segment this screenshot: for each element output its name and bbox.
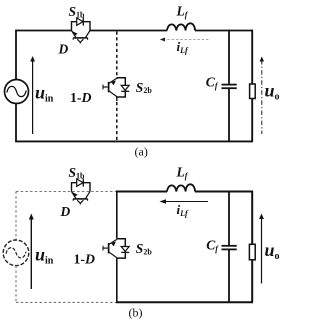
wire: (a) right wire lower — [251, 99, 253, 142]
svg-text:Cf: Cf — [206, 75, 219, 91]
arrow: u_in direction (b) — [30, 217, 32, 289]
wire: (a) right wire upper — [251, 30, 253, 85]
emitter arrowhead S1b (a) — [73, 31, 78, 36]
load resistor (b) — [249, 244, 255, 259]
IGBT gate bar S2b (a) — [108, 82, 110, 93]
wire: (a) top wire left segment — [16, 30, 72, 32]
wire: (b) right wire upper — [251, 191, 253, 245]
wire: (b) dashed top wire — [16, 191, 116, 193]
gate lead S2b (b) — [103, 247, 108, 249]
wire: (a) top wire right segment (inductor to right corner) — [195, 30, 253, 32]
wire: (b) bottom wire solid — [116, 301, 253, 303]
wire: dashed branch above S2b (a) — [116, 32, 118, 78]
gate arrow below bar S1b (a) — [77, 39, 83, 42]
svg-text:D: D — [58, 42, 69, 57]
IGBT body S2b (a) — [116, 78, 118, 79]
AC source (a) — [5, 80, 29, 104]
capacitor Cf plates (a) — [222, 84, 237, 86]
inductor Lf (b) — [167, 184, 195, 191]
switch S2b (a): diode loop — [117, 78, 126, 97]
capacitor Cf branch (b): upper lead — [228, 192, 230, 246]
svg-text:Lf: Lf — [176, 164, 189, 180]
svg-text:S1b: S1b — [69, 165, 86, 180]
wire: (a) left wire lower — [15, 104, 17, 142]
wire: (a) bottom wire — [15, 140, 253, 142]
wire: (b) dashed bottom wire — [16, 301, 116, 303]
svg-text:Cf: Cf — [206, 238, 219, 254]
svg-text:uin: uin — [35, 245, 54, 267]
wire: (b) S2b branch upper solid — [116, 192, 118, 239]
capacitor Cf lower lead (a) — [228, 89, 230, 142]
IGBT gate bar S2b (b) — [108, 243, 110, 254]
svg-text:iLf: iLf — [177, 39, 190, 55]
svg-text:S2b: S2b — [136, 80, 153, 95]
svg-text:(a): (a) — [135, 145, 148, 159]
gate lead S2b (a) — [103, 86, 108, 88]
svg-text:uo: uo — [265, 81, 280, 103]
capacitor Cf plates (b) — [222, 245, 237, 247]
IGBT body S1b (b) — [72, 192, 77, 199]
AC source (b) dashed — [3, 240, 29, 266]
load resistor (a) — [250, 84, 256, 99]
IGBT body S1b (a): trapezoid below wire — [72, 31, 77, 38]
wire: (b) solid top wire left of inductor — [116, 191, 167, 193]
collector arrowhead S2b (b) — [111, 242, 116, 247]
switch S1b (b): diode loop above wire — [72, 183, 91, 192]
emitter arrowhead S1b (b) — [73, 192, 78, 197]
svg-text:1-D: 1-D — [70, 90, 92, 105]
wire: (b) dashed left wire upper — [15, 192, 17, 241]
wire: dashed branch below S2b (a) — [116, 102, 118, 141]
diode D of S1b (a) — [77, 18, 83, 25]
svg-text:Lf: Lf — [176, 3, 189, 19]
wire: (b) S2b branch lower solid — [116, 258, 118, 302]
svg-text:S1b: S1b — [69, 4, 86, 19]
gate arrow below bar S1b (b) — [77, 200, 83, 203]
svg-text:uin: uin — [35, 83, 54, 105]
arrow: i_Lf (a) gray dashed — [163, 39, 210, 41]
wire: (b) right wire lower — [251, 260, 253, 303]
svg-text:S2b: S2b — [136, 241, 153, 256]
svg-text:uo: uo — [265, 240, 280, 262]
capacitor Cf branch (a): upper lead — [228, 30, 230, 85]
wire: (a) left wire upper — [15, 30, 17, 80]
wire: (b) top wire right of inductor — [195, 191, 253, 193]
anti-parallel diode of S2b (a) — [121, 85, 129, 90]
collector arrowhead S2b (a) — [111, 81, 116, 86]
capacitor Cf lower lead (b) — [228, 250, 230, 303]
anti-parallel diode of S2b (b) — [121, 247, 129, 252]
diode D of S1b (b) — [77, 179, 83, 186]
arrow: u_o (a) dash-dot — [261, 60, 263, 134]
wire: (a) top wire middle segment (S1b to inductor) — [90, 30, 167, 32]
svg-text:iLf: iLf — [177, 202, 190, 218]
arrow: u_in direction (a) — [32, 60, 34, 135]
IGBT gate bar S1b (b) — [73, 198, 87, 200]
switch S2b (b): diode loop — [117, 239, 126, 258]
svg-text:D: D — [60, 204, 71, 219]
arrow: u_o (b) — [261, 217, 263, 284]
IGBT body S2b (b) — [109, 239, 117, 244]
switch S1b (a): diode loop above wire — [72, 22, 91, 31]
svg-text:(b): (b) — [129, 305, 143, 319]
IGBT gate bar S1b (a) — [73, 37, 87, 39]
wire: (b) dashed left wire lower — [15, 266, 17, 303]
inductor Lf (a) — [167, 23, 195, 30]
wire: S2b bottom stub (a) — [116, 97, 118, 101]
svg-text:1-D: 1-D — [74, 252, 96, 267]
arrow: i_Lf (b) — [163, 201, 208, 203]
